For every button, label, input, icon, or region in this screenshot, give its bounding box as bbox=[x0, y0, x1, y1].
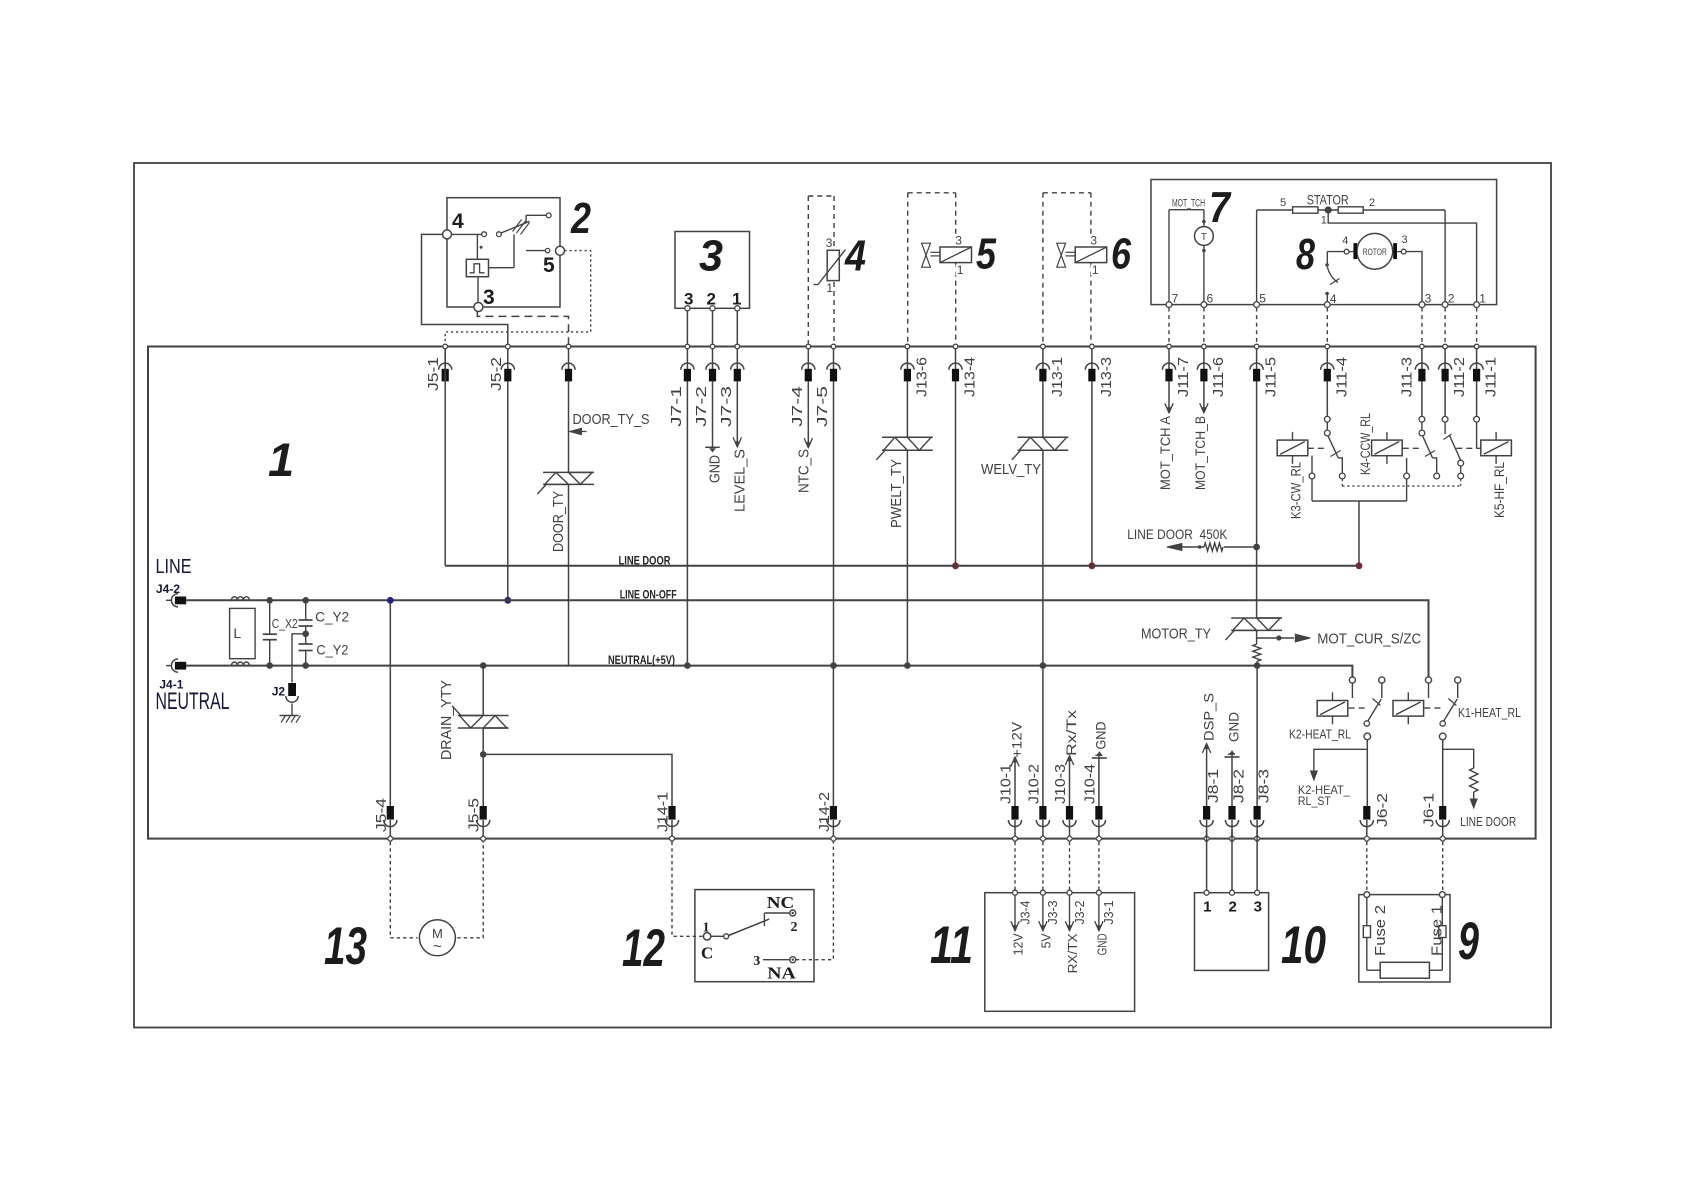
svg-text:LINE ON-OFF: LINE ON-OFF bbox=[620, 588, 677, 602]
svg-text:5: 5 bbox=[976, 230, 996, 279]
board-11 pin J3-2 / RX/TX bbox=[1065, 890, 1087, 973]
svg-text:3: 3 bbox=[753, 954, 760, 969]
wire J5-5 / drain triac column bbox=[482, 666, 484, 806]
connector J5-1 bbox=[425, 344, 452, 391]
signal NTC_S (J7-4) bbox=[796, 381, 813, 493]
connector J7-2 bbox=[693, 344, 719, 427]
svg-text:DOOR_TY: DOOR_TY bbox=[550, 491, 567, 552]
connector J7-4 bbox=[789, 344, 815, 427]
dotted wire pin5 to J5-1 bbox=[445, 251, 591, 345]
svg-text:1: 1 bbox=[1321, 215, 1327, 227]
svg-text:J13-1: J13-1 bbox=[1049, 357, 1066, 397]
node J5-5 / NEUTRAL bbox=[480, 662, 487, 669]
bus LINE ON-OFF bbox=[186, 600, 1428, 677]
rotor wire to pin 3 bbox=[1406, 252, 1422, 302]
svg-text:NEUTRAL: NEUTRAL bbox=[156, 688, 230, 715]
svg-text:GND: GND bbox=[1226, 712, 1242, 742]
NC contact bbox=[764, 893, 797, 935]
node C_Y2 / LINE ON-OFF bbox=[302, 597, 309, 604]
svg-text:2: 2 bbox=[1448, 292, 1455, 306]
svg-text:5: 5 bbox=[1259, 292, 1266, 306]
wire J5-1 to LINE DOOR bbox=[444, 349, 446, 566]
svg-text:Fuse 1: Fuse 1 bbox=[1429, 905, 1446, 956]
dashed link K1 to contact bbox=[1424, 707, 1441, 709]
svg-text:6: 6 bbox=[1207, 292, 1214, 306]
svg-text:K2-HEAT_RL: K2-HEAT_RL bbox=[1289, 728, 1351, 742]
door lock pin 5 bbox=[543, 246, 565, 277]
signal LEVEL_S (J7-3) bbox=[731, 381, 748, 512]
svg-text:J11-7: J11-7 bbox=[1175, 357, 1192, 397]
choke L coil bumps on NEUTRAL bbox=[231, 662, 249, 666]
water valve 5 dashed box bbox=[908, 193, 956, 344]
switch common C bbox=[701, 921, 729, 963]
svg-text:3: 3 bbox=[483, 286, 495, 309]
svg-text:1: 1 bbox=[1203, 899, 1211, 916]
NTC thermistor body bbox=[814, 236, 846, 295]
rotor bbox=[1342, 233, 1407, 269]
svg-text:J10-1: J10-1 bbox=[998, 764, 1015, 804]
svg-text:J14-1: J14-1 bbox=[655, 792, 672, 832]
wire J11-5 / motor triac column down to J8-3 bbox=[1256, 381, 1259, 806]
tacho MOT_TCH bbox=[1169, 198, 1206, 303]
contact of K5 on J11-2 bbox=[1442, 381, 1463, 479]
svg-text:11: 11 bbox=[930, 916, 973, 975]
svg-text:5: 5 bbox=[543, 254, 555, 277]
bus LINE DOOR bbox=[445, 565, 1359, 567]
door lock pulse element bbox=[466, 235, 514, 303]
centrifugal switch bbox=[1325, 252, 1344, 302]
connector J7-1 bbox=[668, 344, 694, 427]
valve 6 butterfly bbox=[1057, 243, 1075, 267]
svg-text:12V: 12V bbox=[1011, 933, 1026, 955]
motor pins 7 and 6 bbox=[1166, 292, 1213, 308]
svg-text:MOT_TCH A: MOT_TCH A bbox=[1157, 415, 1173, 490]
svg-text:L: L bbox=[233, 625, 241, 641]
svg-text:J5-1: J5-1 bbox=[425, 357, 442, 391]
svg-text:J6-1: J6-1 bbox=[1421, 793, 1438, 827]
svg-text:MOT_CUR_S/ZC: MOT_CUR_S/ZC bbox=[1317, 631, 1421, 648]
dashed wires to drain pump 13 bbox=[390, 842, 483, 938]
svg-text:4: 4 bbox=[1342, 235, 1348, 247]
svg-text:C_Y2: C_Y2 bbox=[315, 609, 349, 625]
wire J13-3 to LINE DOOR bbox=[1091, 381, 1093, 565]
svg-text:RL_ST: RL_ST bbox=[1298, 794, 1332, 808]
svg-text:J7-2: J7-2 bbox=[693, 386, 710, 427]
svg-text:DRAIN_YTY: DRAIN_YTY bbox=[438, 680, 455, 760]
triac PWELT_TY bbox=[876, 437, 933, 460]
svg-text:3: 3 bbox=[1254, 899, 1262, 916]
connector J13-3 bbox=[1085, 344, 1115, 397]
wire J13-6 / PWELT triac column bbox=[906, 381, 908, 665]
board-10 pin 3 bbox=[1254, 830, 1262, 916]
board-11 pin J3-4 / 12V bbox=[1011, 890, 1033, 955]
switch blade bbox=[729, 919, 770, 935]
dashed drops J10 to board 11 bbox=[1015, 842, 1099, 890]
svg-text:J11-5: J11-5 bbox=[1263, 357, 1280, 397]
svg-text:C: C bbox=[701, 944, 713, 963]
svg-text:8: 8 bbox=[1296, 230, 1315, 279]
wire J5-2 to LINE ON-OFF bbox=[507, 381, 509, 600]
node between C_Y2 caps bbox=[302, 631, 309, 638]
device 3 pin 1 bbox=[732, 290, 741, 345]
connector J8-2 bbox=[1225, 769, 1247, 842]
svg-text:NTC_S: NTC_S bbox=[796, 449, 813, 493]
fuse 2 element bbox=[1363, 892, 1389, 971]
svg-text:3: 3 bbox=[1090, 234, 1097, 248]
capacitor C_Y2 upper bbox=[299, 600, 350, 634]
connector J11-4 bbox=[1321, 344, 1351, 397]
dashed wire pin3 to door triac pin bbox=[477, 312, 568, 345]
contact of K2 bbox=[1349, 677, 1385, 806]
signal DSP_S (J8-1) bbox=[1200, 693, 1216, 806]
dashed link K3 to contact bbox=[1308, 447, 1326, 449]
svg-text:3: 3 bbox=[1402, 234, 1408, 246]
contact of K4 on J11-3 bbox=[1419, 381, 1440, 479]
fuse 1 element bbox=[1429, 892, 1446, 971]
svg-text:+12V: +12V bbox=[1009, 721, 1025, 758]
connector J11-7 bbox=[1162, 344, 1192, 397]
svg-text:7: 7 bbox=[1209, 183, 1232, 232]
svg-text:J7-4: J7-4 bbox=[789, 386, 806, 427]
svg-text:GND: GND bbox=[1093, 722, 1109, 750]
triac WELV_TY bbox=[1012, 437, 1069, 460]
triac DOOR_TY bbox=[537, 472, 594, 494]
svg-text:J3-3: J3-3 bbox=[1045, 901, 1060, 925]
svg-text:Rx/Tx: Rx/Tx bbox=[1063, 710, 1079, 756]
signal MOT_CUR_S/ZC bbox=[1257, 631, 1422, 648]
svg-text:J11-2: J11-2 bbox=[1451, 357, 1468, 397]
connector J11-1 bbox=[1470, 344, 1500, 397]
svg-text:J13-3: J13-3 bbox=[1098, 357, 1115, 397]
capacitor C_X2 bbox=[263, 600, 298, 665]
board-10 pin 1 bbox=[1203, 830, 1211, 916]
svg-text:1: 1 bbox=[268, 433, 294, 486]
dotted contact bus bbox=[1342, 479, 1460, 486]
connector J13-6 bbox=[901, 344, 931, 397]
relay K1-HEAT_RL coil bbox=[1393, 692, 1424, 724]
svg-text:5: 5 bbox=[1280, 197, 1286, 209]
connector J10-1 bbox=[998, 764, 1022, 842]
relay K4-CCW_RL coil bbox=[1372, 432, 1403, 464]
triac DRAIN_YTY bbox=[452, 706, 509, 728]
motor sense resistor bbox=[1256, 638, 1258, 644]
contact of K3 on J11-4 bbox=[1324, 381, 1345, 479]
svg-text:DSP_S: DSP_S bbox=[1200, 693, 1216, 741]
node C_Y2 / NEUTRAL bbox=[302, 662, 309, 669]
K4 mid throw stub bbox=[1404, 458, 1410, 501]
svg-text:1: 1 bbox=[957, 263, 964, 277]
device 3 pin 3 bbox=[684, 290, 693, 345]
dashed drops from motor pins to board bbox=[1168, 308, 1170, 345]
connector J7-5 bbox=[814, 344, 840, 427]
NA contact bbox=[753, 954, 796, 983]
valve 6 solenoid bbox=[1075, 234, 1107, 278]
connector J14-1 bbox=[655, 792, 679, 842]
svg-text:J13-4: J13-4 bbox=[962, 357, 979, 397]
contact output bus bbox=[1312, 501, 1407, 566]
motor unit box (7/8) bbox=[1151, 180, 1497, 305]
connector J8-1 bbox=[1200, 769, 1222, 842]
display board 11 box bbox=[985, 893, 1135, 1012]
relay K2-HEAT_RL coil bbox=[1317, 692, 1348, 724]
dashed link K4 to contact bbox=[1403, 447, 1420, 449]
node 450K / J11-5 bbox=[1253, 544, 1260, 551]
svg-text:K4-CCW_RL: K4-CCW_RL bbox=[1357, 413, 1373, 475]
signal K2-HEAT_RL_ST bbox=[1298, 749, 1367, 808]
svg-text:4: 4 bbox=[844, 232, 866, 281]
svg-text:9: 9 bbox=[1458, 912, 1479, 971]
connector J10-2 bbox=[1025, 764, 1049, 842]
ground symbol bbox=[280, 716, 301, 723]
svg-text:STATOR: STATOR bbox=[1307, 192, 1349, 208]
connector J10-4 bbox=[1081, 764, 1105, 842]
connector J8-3 bbox=[1251, 769, 1273, 842]
node bus / LINE DOOR bbox=[1356, 562, 1363, 569]
svg-text:J6-2: J6-2 bbox=[1374, 793, 1391, 827]
connector J11-2 bbox=[1439, 344, 1469, 397]
svg-text:PWELT_TY: PWELT_TY bbox=[888, 459, 905, 528]
relay K5-HF_RL coil bbox=[1481, 432, 1512, 464]
svg-text:J7-3: J7-3 bbox=[718, 386, 735, 427]
door lock pin 3 bbox=[474, 286, 495, 312]
svg-text:2: 2 bbox=[570, 194, 591, 243]
bus NEUTRAL(+5V) bbox=[186, 666, 1352, 677]
svg-text:J5-2: J5-2 bbox=[488, 357, 505, 391]
wire J7-5 to NEUTRAL bbox=[833, 381, 835, 665]
valve 5 butterfly bbox=[922, 243, 940, 267]
resistor LINE DOOR 450K bbox=[1127, 527, 1256, 551]
connector J6-1 bbox=[1421, 793, 1450, 842]
interface board 10 box bbox=[1195, 893, 1269, 971]
connector J6-2 bbox=[1360, 793, 1391, 842]
relay K3-CW_RL coil bbox=[1277, 432, 1308, 464]
dashed link K5 to contact bbox=[1456, 447, 1481, 449]
door lock internal wiring bbox=[452, 213, 552, 259]
svg-text:J3-4: J3-4 bbox=[1017, 901, 1032, 925]
wire drain branch to J14-1 bbox=[483, 754, 672, 806]
node J5-2 / LINE ON-OFF bbox=[504, 597, 511, 604]
board-11 pin J3-3 / 5V bbox=[1039, 890, 1061, 948]
signal MOT_TCH A (J11-7) bbox=[1157, 381, 1173, 490]
wire J11-1 stub bbox=[1474, 381, 1480, 448]
svg-text:WELV_TY: WELV_TY bbox=[981, 461, 1041, 478]
connector J13-4 bbox=[949, 344, 979, 397]
svg-text:J8-2: J8-2 bbox=[1231, 769, 1248, 803]
signal +12V (J10-1) bbox=[1009, 721, 1025, 806]
door lock pin 4 bbox=[443, 210, 465, 239]
svg-text:J11-4: J11-4 bbox=[1333, 357, 1350, 397]
svg-text:J11-1: J11-1 bbox=[1483, 357, 1500, 397]
svg-text:7: 7 bbox=[1172, 292, 1179, 306]
svg-text:J14-2: J14-2 bbox=[816, 792, 833, 832]
svg-text:J11-6: J11-6 bbox=[1210, 357, 1227, 397]
svg-text:MOT_TCH: MOT_TCH bbox=[1172, 198, 1205, 210]
svg-text:13: 13 bbox=[324, 917, 367, 976]
water valve 6 dashed box bbox=[1043, 193, 1091, 344]
LINE entry text bbox=[156, 556, 192, 596]
board-11 pin J3-1 / GND bbox=[1095, 890, 1117, 955]
svg-text:T: T bbox=[1201, 232, 1207, 243]
svg-text:2: 2 bbox=[1229, 899, 1237, 916]
svg-text:6: 6 bbox=[1111, 230, 1131, 279]
svg-text:NC: NC bbox=[767, 893, 795, 912]
svg-text:K1-HEAT_RL: K1-HEAT_RL bbox=[1458, 705, 1521, 720]
fuse holder bbox=[1380, 962, 1429, 978]
svg-text:RX/TX: RX/TX bbox=[1065, 933, 1080, 973]
svg-text:12: 12 bbox=[622, 919, 665, 978]
wire J14-2 to NEUTRAL bbox=[832, 666, 834, 806]
fuse box 9 bbox=[1359, 895, 1450, 982]
choke L coil bumps on LINE bbox=[231, 597, 249, 601]
connector J11-3 bbox=[1398, 344, 1428, 397]
earth connector J2 bbox=[272, 634, 306, 716]
node J7-1 / NEUTRAL bbox=[684, 662, 691, 669]
svg-text:5V: 5V bbox=[1039, 933, 1054, 948]
svg-text:LINE: LINE bbox=[156, 556, 192, 578]
signal tap DOOR_TY_S bbox=[570, 411, 650, 435]
tacho generator T bbox=[1195, 227, 1214, 302]
wire J7-1 to NEUTRAL bbox=[686, 381, 688, 665]
contact of K1 bbox=[1425, 677, 1460, 806]
connector J13-1 bbox=[1036, 344, 1066, 397]
svg-text:ROTOR: ROTOR bbox=[1363, 247, 1387, 258]
signal GND (J8-2) bbox=[1225, 712, 1242, 806]
node J5-4 / LINE ON-OFF bbox=[387, 597, 394, 604]
svg-text:LEVEL_S: LEVEL_S bbox=[731, 449, 748, 512]
wire pin4 to J5-2 bbox=[422, 234, 508, 344]
svg-text:NA: NA bbox=[767, 964, 796, 983]
svg-text:J8-1: J8-1 bbox=[1205, 769, 1222, 803]
svg-text:2: 2 bbox=[791, 920, 798, 935]
connector J11-6 bbox=[1197, 344, 1227, 397]
svg-text:LINE DOOR 450K: LINE DOOR 450K bbox=[1127, 527, 1227, 542]
svg-text:3: 3 bbox=[826, 236, 833, 250]
capacitor C_Y2 lower bbox=[299, 634, 349, 666]
svg-text:J5-5: J5-5 bbox=[466, 798, 483, 832]
connector J14-2 bbox=[816, 792, 840, 842]
svg-text:J8-3: J8-3 bbox=[1256, 769, 1273, 803]
svg-text:GND: GND bbox=[706, 455, 723, 483]
connector J4-2 bbox=[166, 594, 186, 607]
connector J7-3 bbox=[718, 344, 744, 427]
wire J13-4 to LINE DOOR bbox=[955, 381, 957, 565]
signal MOT_TCH_B (J11-6) bbox=[1192, 381, 1208, 490]
connector J5-2 bbox=[488, 344, 515, 391]
triac MOTOR_TY bbox=[1226, 618, 1283, 640]
drain pump motor M bbox=[419, 920, 455, 956]
stator winding bbox=[1257, 192, 1477, 303]
signal GND (J7-2) bbox=[705, 381, 723, 483]
valve 5 solenoid bbox=[940, 234, 972, 278]
signal GND (J10-4) bbox=[1092, 722, 1109, 807]
choke L box bbox=[230, 608, 256, 658]
NEUTRAL entry text bbox=[156, 678, 230, 716]
dotted wires J6 to fuse box bbox=[1367, 842, 1443, 892]
connector J4-1 bbox=[166, 659, 186, 672]
svg-text:J11-3: J11-3 bbox=[1398, 357, 1415, 397]
svg-text:10: 10 bbox=[1281, 916, 1326, 975]
svg-text:MOTOR_TY: MOTOR_TY bbox=[1141, 626, 1211, 643]
dashed wire J14-1 to C bbox=[672, 842, 703, 937]
svg-text:1: 1 bbox=[826, 281, 833, 295]
K3 left throw stub bbox=[1309, 456, 1315, 501]
svg-text:NEUTRAL(+5V): NEUTRAL(+5V) bbox=[608, 653, 675, 667]
connector J10-3 bbox=[1052, 764, 1076, 842]
node J7-5 / NEUTRAL bbox=[830, 662, 837, 669]
board-10 pin 2 bbox=[1229, 830, 1237, 916]
svg-text:MOT_TCH_B: MOT_TCH_B bbox=[1192, 416, 1208, 490]
node PWELT / NEUTRAL bbox=[904, 662, 911, 669]
pressure switch 12 box bbox=[695, 890, 814, 982]
svg-text:3: 3 bbox=[699, 232, 723, 281]
svg-text:4: 4 bbox=[452, 210, 464, 233]
node C_X2 / LINE ON-OFF bbox=[266, 597, 273, 604]
wire J5-4 from LINE ON-OFF to connector bbox=[389, 600, 391, 806]
node C_X2 / NEUTRAL bbox=[266, 662, 273, 669]
dashed wire NA to J14-2 bbox=[796, 842, 834, 960]
device 3 box bbox=[675, 232, 750, 309]
svg-text:1: 1 bbox=[1479, 292, 1486, 306]
svg-text:J13-6: J13-6 bbox=[913, 357, 930, 397]
svg-text:3: 3 bbox=[1425, 292, 1432, 306]
svg-text:2: 2 bbox=[1369, 197, 1375, 209]
control board module 1 outline bbox=[148, 347, 1536, 839]
svg-text:~: ~ bbox=[433, 938, 442, 955]
NTC sensor 4 dashed box bbox=[808, 196, 834, 344]
svg-text:J7-1: J7-1 bbox=[668, 386, 685, 427]
node J13-4 / LINE DOOR bbox=[952, 562, 959, 569]
device 3 pin 2 bbox=[707, 290, 716, 345]
motor pins 5 4 3 2 1 bbox=[1254, 292, 1487, 308]
svg-text:J2: J2 bbox=[272, 685, 286, 699]
node WELV / NEUTRAL bbox=[1040, 662, 1047, 669]
dashed link K2 to contact bbox=[1349, 707, 1366, 709]
door lock device 2 box bbox=[447, 198, 560, 307]
svg-text:C_Y2: C_Y2 bbox=[316, 642, 348, 658]
node J13-3 / LINE DOOR bbox=[1089, 562, 1096, 569]
connector J5-5 bbox=[466, 798, 490, 842]
svg-text:J10-4: J10-4 bbox=[1081, 764, 1098, 804]
connector (door triac pin) bbox=[562, 344, 575, 381]
svg-text:LINE DOOR: LINE DOOR bbox=[1460, 814, 1516, 829]
resistor to LINE DOOR sense bbox=[1443, 749, 1517, 829]
connector J5-4 bbox=[373, 798, 397, 842]
svg-text:J3-1: J3-1 bbox=[1101, 901, 1116, 925]
wire door-triac column bbox=[568, 381, 570, 665]
svg-text:1: 1 bbox=[1092, 263, 1099, 277]
connector J11-5 bbox=[1250, 344, 1280, 397]
svg-text:K5-HF_RL: K5-HF_RL bbox=[1491, 462, 1507, 518]
wire J13-1 / WELV triac column down to J10-2 bbox=[1042, 381, 1044, 806]
svg-text:Fuse 2: Fuse 2 bbox=[1372, 905, 1389, 956]
svg-text:J3-2: J3-2 bbox=[1072, 901, 1087, 925]
svg-text:K3-CW_RL: K3-CW_RL bbox=[1287, 462, 1303, 519]
signal Rx/Tx (J10-3) bbox=[1063, 710, 1079, 806]
svg-text:3: 3 bbox=[955, 234, 962, 248]
svg-text:DOOR_TY_S: DOOR_TY_S bbox=[573, 411, 650, 428]
svg-text:LINE DOOR: LINE DOOR bbox=[619, 553, 671, 567]
svg-text:J7-5: J7-5 bbox=[814, 386, 831, 427]
node drain branch bbox=[480, 751, 487, 758]
node motor sense / NEUTRAL bbox=[1254, 662, 1261, 669]
svg-text:J10-2: J10-2 bbox=[1025, 764, 1042, 804]
svg-text:J5-4: J5-4 bbox=[373, 798, 390, 832]
svg-text:C_X2: C_X2 bbox=[272, 617, 298, 631]
svg-text:GND: GND bbox=[1095, 933, 1110, 955]
svg-text:J10-3: J10-3 bbox=[1052, 764, 1069, 804]
svg-text:4: 4 bbox=[1330, 292, 1337, 306]
